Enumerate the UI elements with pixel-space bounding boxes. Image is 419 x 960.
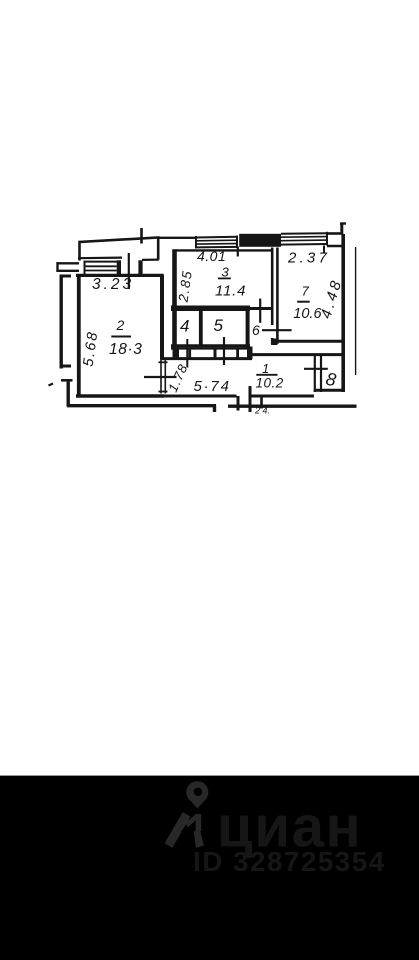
- person left leg: [168, 814, 186, 845]
- tick at 6 top: [259, 299, 261, 323]
- svg-text:1: 1: [262, 361, 269, 376]
- person notch slit: [182, 815, 198, 832]
- room 3 inner top line: [175, 249, 272, 251]
- svg-text:7: 7: [302, 284, 310, 299]
- person right bar: [196, 814, 202, 831]
- top wall right corner: [327, 232, 342, 235]
- door swing tick through room 2 wall: [144, 376, 177, 378]
- svg-text:4: 4: [180, 316, 189, 335]
- person diagonal arm: [187, 816, 197, 825]
- rooms 4/5 right wall (5/6): [246, 309, 250, 348]
- text labels: [81, 248, 346, 416]
- svg-text:6: 6: [252, 322, 260, 338]
- room 8 left wall: [314, 356, 316, 392]
- window under balcony (room 2 window): [84, 261, 121, 263]
- svg-text:5·74: 5·74: [194, 378, 231, 395]
- left wall lower bracket: [61, 379, 73, 382]
- window 2.37: [281, 232, 327, 235]
- wall stub left of balcony: [58, 262, 80, 272]
- room 2 bottom wall (inner): [76, 394, 164, 397]
- bottom outer wall right segment: [228, 405, 357, 408]
- svg-text:4.01: 4.01: [197, 248, 226, 264]
- dim tick 3.23: [128, 253, 130, 289]
- black watermark band: [0, 776, 419, 960]
- person right leg: [194, 831, 204, 848]
- top of 6 line: [250, 307, 272, 310]
- room 8 bottom: [314, 389, 342, 392]
- thin outer line right: [355, 247, 357, 375]
- svg-text:3.23: 3.23: [92, 276, 134, 293]
- divider wall rooms 3/7: [271, 248, 274, 326]
- balcony outline: [80, 238, 159, 261]
- svg-text:2.37: 2.37: [287, 249, 330, 266]
- left outer wall upper: [60, 275, 63, 369]
- rooms 4/5 top wall: [171, 305, 250, 311]
- tick below window2 right end: [323, 246, 325, 254]
- svg-text:18·3: 18·3: [109, 341, 142, 358]
- bottom inner line corridor: [164, 395, 237, 398]
- entrance door verticals: [237, 396, 240, 411]
- divider 4/5: [199, 310, 203, 346]
- balcony top tick: [140, 228, 143, 244]
- room 3 left wall: [172, 249, 177, 346]
- pin head ring: [186, 781, 208, 803]
- pin tail: [188, 798, 206, 808]
- svg-text:ID 328725354: ID 328725354: [193, 846, 386, 877]
- window pier blocks: [117, 260, 121, 275]
- room 2 right wall upper: [160, 275, 164, 360]
- bottom inner line room 1: [251, 395, 314, 398]
- tick below window1 right end: [237, 247, 239, 257]
- hatched band below 4/5: [173, 347, 180, 358]
- room 7 right wall: [341, 234, 345, 392]
- room 7 bottom wall (line A): [272, 340, 345, 343]
- svg-text:10.2: 10.2: [256, 376, 284, 391]
- svg-text:5: 5: [214, 316, 224, 335]
- door tick room 8: [304, 368, 328, 370]
- top wall left segment (room3): [159, 237, 197, 239]
- room 2 right wall door section (thin double): [160, 360, 162, 394]
- svg-text:2: 2: [116, 317, 125, 333]
- top of rooms 1/8 (line B): [252, 353, 342, 356]
- balcony bottom edge: [78, 257, 122, 260]
- svg-text:2 4.: 2 4.: [254, 406, 270, 416]
- small dash outside left: [49, 384, 54, 386]
- bottom outer wall left segment: [67, 404, 216, 407]
- door tick 6 to 7: [262, 329, 292, 331]
- svg-text:3: 3: [222, 265, 230, 280]
- dim tick below room 5: [223, 337, 225, 365]
- svg-text:11.4: 11.4: [215, 283, 246, 300]
- dim tick below room 4: [186, 339, 188, 368]
- rooms 4/5 bottom wall: [171, 344, 250, 347]
- window 4.01: [196, 236, 237, 239]
- room 2 top wall: [76, 274, 164, 277]
- solid wall between windows: [239, 234, 281, 247]
- room 2 left wall: [77, 275, 81, 397]
